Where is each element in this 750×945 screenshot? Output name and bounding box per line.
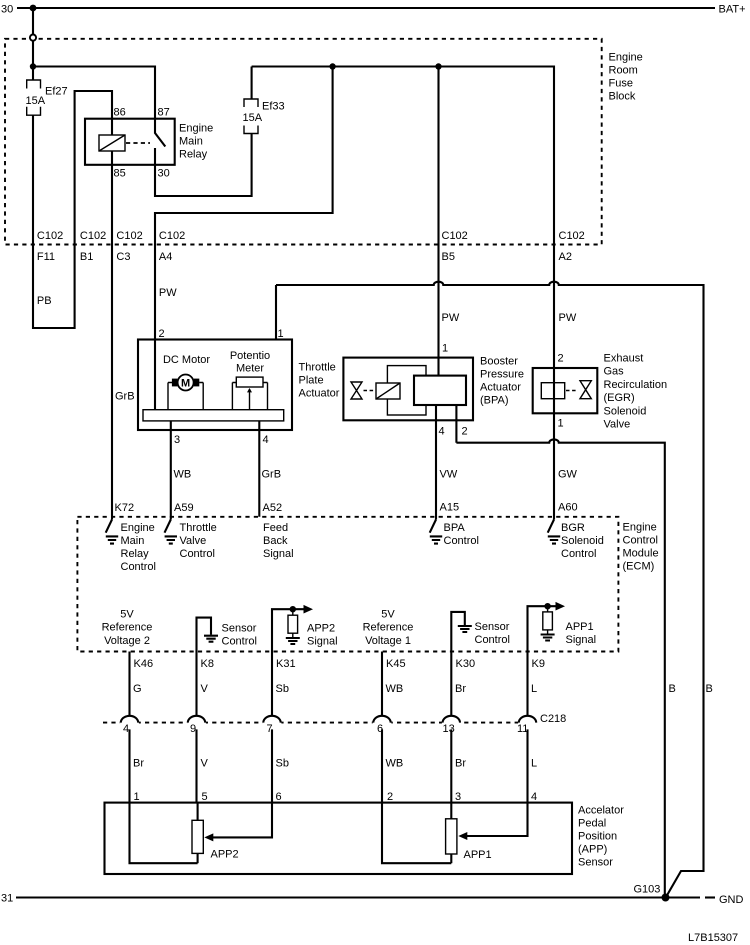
svg-text:Valve: Valve bbox=[604, 419, 631, 431]
svg-text:(EGR): (EGR) bbox=[604, 392, 635, 404]
svg-text:Sensor: Sensor bbox=[578, 857, 613, 869]
EGR pin 2 stub bbox=[553, 368, 555, 399]
svg-text:Throttle: Throttle bbox=[180, 522, 217, 534]
svg-text:PW: PW bbox=[559, 312, 577, 324]
wire junction to fuse Ef27 bbox=[32, 67, 34, 81]
svg-text:5V: 5V bbox=[120, 608, 134, 620]
dc motor symbol bbox=[168, 383, 203, 410]
wire fuse Ef33 to bus bbox=[251, 67, 253, 100]
svg-text:G103: G103 bbox=[634, 884, 661, 896]
svg-text:A52: A52 bbox=[263, 502, 283, 514]
svg-text:Sensor: Sensor bbox=[222, 623, 257, 635]
relay link dashed bbox=[126, 142, 150, 144]
svg-text:Pedal: Pedal bbox=[578, 818, 606, 830]
svg-text:DC Motor: DC Motor bbox=[163, 354, 210, 366]
svg-text:2: 2 bbox=[462, 426, 468, 438]
svg-text:B1: B1 bbox=[80, 251, 93, 263]
svg-text:BAT+: BAT+ bbox=[719, 4, 746, 16]
relay box Engine Main Relay bbox=[85, 119, 175, 165]
svg-text:K46: K46 bbox=[134, 658, 154, 670]
svg-text:Engine: Engine bbox=[609, 52, 643, 64]
svg-text:C102: C102 bbox=[159, 230, 185, 242]
svg-text:Meter: Meter bbox=[236, 363, 264, 375]
wire K30 to APP pin 3 bbox=[450, 652, 452, 803]
BPA plunger box bbox=[414, 376, 466, 405]
svg-text:C102: C102 bbox=[116, 230, 142, 242]
EGR valve symbol bbox=[580, 381, 591, 399]
wire K9 to APP pin 4 bbox=[526, 652, 528, 803]
svg-text:3: 3 bbox=[174, 434, 180, 446]
svg-text:PW: PW bbox=[159, 287, 177, 299]
throttle pin 4 wire to ECM A52 bbox=[258, 421, 260, 517]
svg-text:Relay: Relay bbox=[179, 149, 208, 161]
throttle plate actuator box bbox=[138, 340, 292, 431]
svg-text:Actuator: Actuator bbox=[299, 388, 340, 400]
svg-text:85: 85 bbox=[114, 168, 126, 180]
svg-text:Control: Control bbox=[475, 634, 510, 646]
svg-text:A4: A4 bbox=[159, 251, 172, 263]
APP2 potentiometer bbox=[192, 820, 203, 853]
svg-text:11: 11 bbox=[517, 723, 528, 735]
label Exhaust Gas Recirculation (EGR) Solenoid Valve bbox=[604, 353, 668, 431]
svg-text:Control: Control bbox=[180, 548, 215, 560]
connector C218 pass-through arcs bbox=[121, 716, 536, 723]
ECM APP2 signal K31 bbox=[272, 609, 304, 651]
svg-text:GrB: GrB bbox=[115, 391, 135, 403]
potentiometer symbol bbox=[236, 377, 263, 387]
svg-text:Ef27: Ef27 bbox=[45, 86, 68, 98]
svg-text:13: 13 bbox=[443, 723, 455, 735]
ECM sensor control K8 bbox=[197, 618, 212, 652]
svg-text:4: 4 bbox=[263, 434, 269, 446]
svg-text:WB: WB bbox=[386, 683, 404, 695]
svg-text:C218: C218 bbox=[540, 713, 566, 725]
svg-text:Sensor: Sensor bbox=[475, 621, 510, 633]
wire K31 to APP pin 6 bbox=[271, 652, 273, 803]
svg-text:86: 86 bbox=[114, 107, 126, 119]
wire APP pin 1 to APP2 low end bbox=[130, 803, 198, 864]
throttle pin 3 wire to ECM A59 bbox=[170, 421, 172, 520]
BPA pin 1 stub bbox=[437, 358, 439, 376]
wire APP pin 2 to APP1 low end bbox=[382, 803, 451, 864]
svg-text:Module: Module bbox=[623, 548, 659, 560]
wire K46 to APP pin 1 bbox=[128, 652, 130, 803]
EGR link dashed bbox=[566, 390, 578, 392]
svg-text:Valve: Valve bbox=[180, 535, 207, 547]
svg-text:Signal: Signal bbox=[566, 634, 597, 646]
svg-text:2: 2 bbox=[558, 353, 564, 365]
svg-text:3: 3 bbox=[455, 791, 461, 803]
BPA box Booster Pressure Actuator bbox=[343, 358, 473, 421]
junction node fuse feed bbox=[30, 63, 36, 69]
svg-text:Reference: Reference bbox=[102, 622, 153, 634]
svg-text:1: 1 bbox=[442, 343, 448, 355]
svg-text:VW: VW bbox=[440, 469, 458, 481]
svg-text:C3: C3 bbox=[116, 251, 130, 263]
svg-text:Voltage 1: Voltage 1 bbox=[365, 635, 411, 647]
svg-text:Relay: Relay bbox=[121, 548, 150, 560]
svg-text:Engine: Engine bbox=[623, 522, 657, 534]
svg-text:Voltage 2: Voltage 2 bbox=[104, 635, 150, 647]
svg-text:15A: 15A bbox=[26, 95, 46, 107]
svg-text:K9: K9 bbox=[532, 658, 545, 670]
svg-text:2: 2 bbox=[387, 791, 393, 803]
svg-text:4: 4 bbox=[439, 426, 445, 438]
svg-text:APP1: APP1 bbox=[566, 621, 594, 633]
svg-text:Control: Control bbox=[561, 548, 596, 560]
svg-text:GW: GW bbox=[558, 469, 578, 481]
svg-text:Booster: Booster bbox=[480, 356, 518, 368]
svg-text:Control: Control bbox=[623, 535, 658, 547]
wire circle to junction bbox=[32, 41, 34, 67]
svg-text:Gas: Gas bbox=[604, 366, 625, 378]
svg-text:K31: K31 bbox=[276, 658, 296, 670]
svg-text:87: 87 bbox=[158, 107, 170, 119]
svg-text:Main: Main bbox=[121, 535, 145, 547]
svg-text:Plate: Plate bbox=[299, 375, 324, 387]
svg-text:G: G bbox=[133, 683, 142, 695]
wire APP pin 6 to APP2 wiper bbox=[213, 803, 272, 838]
svg-text:K45: K45 bbox=[386, 658, 406, 670]
wire APP pin 5 to APP2 top bbox=[197, 803, 199, 821]
EGR box bbox=[533, 368, 598, 413]
svg-text:C102: C102 bbox=[80, 230, 106, 242]
svg-text:Control: Control bbox=[121, 561, 156, 573]
svg-text:4: 4 bbox=[123, 723, 129, 735]
wire battery rail top bbox=[17, 7, 715, 9]
svg-text:6: 6 bbox=[377, 723, 383, 735]
svg-text:Recirculation: Recirculation bbox=[604, 379, 668, 391]
svg-text:C102: C102 bbox=[442, 230, 468, 242]
svg-text:APP2: APP2 bbox=[307, 623, 335, 635]
svg-text:Sb: Sb bbox=[276, 683, 289, 695]
BPA loop bbox=[387, 366, 426, 415]
label Booster Pressure Actuator (BPA) bbox=[480, 356, 524, 407]
label Throttle Plate Actuator bbox=[299, 362, 340, 400]
svg-text:M: M bbox=[181, 378, 190, 390]
APP1 potentiometer bbox=[446, 819, 457, 854]
svg-text:L: L bbox=[531, 758, 537, 770]
svg-text:Signal: Signal bbox=[263, 548, 294, 560]
svg-text:PB: PB bbox=[37, 295, 52, 307]
svg-text:(BPA): (BPA) bbox=[480, 395, 509, 407]
svg-text:6: 6 bbox=[276, 791, 282, 803]
svg-text:Accelator: Accelator bbox=[578, 805, 624, 817]
wire bus to relay pin 87 bbox=[33, 67, 155, 134]
BPA pin 4 wire to ECM A15 bbox=[435, 405, 437, 520]
svg-text:Reference: Reference bbox=[363, 622, 414, 634]
svg-text:Control: Control bbox=[222, 636, 257, 648]
junction bus B5 drop bbox=[435, 63, 441, 69]
svg-text:Feed: Feed bbox=[263, 522, 288, 534]
svg-text:5V: 5V bbox=[381, 608, 395, 620]
fuse Ef27 bbox=[27, 80, 41, 115]
svg-text:L: L bbox=[531, 683, 537, 695]
wire K45 to APP pin 2 bbox=[381, 652, 383, 803]
svg-text:WB: WB bbox=[174, 469, 192, 481]
BPA solenoid coil bbox=[376, 383, 400, 399]
svg-text:GND: GND bbox=[719, 894, 744, 906]
svg-text:A15: A15 bbox=[440, 502, 460, 514]
wire main PW bus bbox=[252, 67, 554, 369]
svg-text:Br: Br bbox=[455, 683, 466, 695]
wire ground link top horizontal with hops bbox=[276, 282, 704, 897]
svg-text:Br: Br bbox=[455, 758, 466, 770]
svg-text:B: B bbox=[669, 683, 676, 695]
wire ground rail bottom bbox=[16, 896, 700, 898]
BPA valve symbol bbox=[351, 382, 362, 399]
svg-text:Signal: Signal bbox=[307, 636, 338, 648]
svg-text:APP1: APP1 bbox=[464, 849, 492, 861]
relay pin 30 wire to fuse Ef33 bbox=[155, 134, 252, 197]
svg-text:V: V bbox=[201, 683, 209, 695]
pass-through connector circle at fuse block border bbox=[30, 35, 36, 41]
svg-text:A60: A60 bbox=[558, 502, 578, 514]
ECM sensor control K30 bbox=[451, 612, 465, 652]
svg-text:Back: Back bbox=[263, 535, 288, 547]
svg-text:B: B bbox=[706, 683, 713, 695]
label Engine Room Fuse Block bbox=[609, 52, 643, 103]
svg-text:Engine: Engine bbox=[121, 522, 155, 534]
svg-text:K8: K8 bbox=[201, 658, 214, 670]
svg-text:15A: 15A bbox=[243, 112, 263, 124]
junction on battery rail bbox=[30, 5, 37, 12]
svg-text:L7B15307: L7B15307 bbox=[688, 932, 738, 944]
relay coil bbox=[99, 135, 125, 151]
svg-text:1: 1 bbox=[134, 791, 140, 803]
svg-text:30: 30 bbox=[158, 168, 170, 180]
throttle pin 1 wire to ground link bbox=[275, 285, 277, 340]
svg-text:F11: F11 bbox=[37, 251, 55, 263]
label Engine Control Module (ECM) bbox=[623, 522, 659, 573]
svg-text:Actuator: Actuator bbox=[480, 382, 521, 394]
svg-text:B5: B5 bbox=[442, 251, 455, 263]
svg-text:(ECM): (ECM) bbox=[623, 561, 655, 573]
svg-text:Fuse: Fuse bbox=[609, 78, 633, 90]
wire bus drop to C102 A4 and throttle pin 2 bbox=[155, 67, 333, 411]
svg-text:APP2: APP2 bbox=[211, 849, 239, 861]
svg-text:BGR: BGR bbox=[561, 522, 585, 534]
EGR pin 1 wire to ECM A60 bbox=[553, 399, 555, 520]
svg-text:V: V bbox=[201, 758, 209, 770]
svg-text:Solenoid: Solenoid bbox=[561, 535, 604, 547]
svg-text:Exhaust: Exhaust bbox=[604, 353, 644, 365]
svg-text:K30: K30 bbox=[456, 658, 476, 670]
svg-text:Ef33: Ef33 bbox=[262, 101, 285, 113]
svg-text:Throttle: Throttle bbox=[299, 362, 336, 374]
svg-text:Br: Br bbox=[133, 758, 144, 770]
svg-text:(APP): (APP) bbox=[578, 844, 607, 856]
label Accelator Pedal Position (APP) Sensor bbox=[578, 805, 624, 869]
svg-text:1: 1 bbox=[558, 418, 564, 430]
svg-text:C102: C102 bbox=[37, 230, 63, 242]
svg-text:BPA: BPA bbox=[444, 522, 466, 534]
relay switch blade bbox=[155, 133, 165, 147]
label Engine Main Relay bbox=[179, 123, 213, 161]
svg-text:GrB: GrB bbox=[262, 469, 282, 481]
potentiometer wiper arrow bbox=[249, 389, 251, 410]
svg-text:Engine: Engine bbox=[179, 123, 213, 135]
svg-text:Solenoid: Solenoid bbox=[604, 405, 647, 417]
svg-text:Pressure: Pressure bbox=[480, 369, 524, 381]
svg-text:2: 2 bbox=[159, 328, 165, 340]
svg-text:4: 4 bbox=[531, 791, 537, 803]
svg-text:WB: WB bbox=[386, 758, 404, 770]
ECM dashed border bbox=[77, 517, 618, 652]
ECM 5V Reference Voltage 1 bbox=[363, 608, 414, 647]
svg-text:31: 31 bbox=[1, 893, 13, 905]
svg-text:Main: Main bbox=[179, 136, 203, 148]
BPA pin 2 wire to ground bbox=[456, 405, 664, 898]
svg-text:K72: K72 bbox=[115, 502, 135, 514]
APP sensor box bbox=[105, 803, 573, 874]
svg-text:9: 9 bbox=[190, 723, 196, 735]
wire APP pin 3 to APP1 top bbox=[450, 803, 452, 819]
wire fuse Ef27 to C102 F11 and PB loop to C102 B1 bbox=[33, 91, 112, 328]
svg-text:Control: Control bbox=[444, 535, 479, 547]
svg-text:A2: A2 bbox=[559, 251, 572, 263]
svg-text:Sb: Sb bbox=[276, 758, 289, 770]
svg-text:7: 7 bbox=[267, 723, 273, 735]
EGR solenoid coil bbox=[541, 383, 564, 399]
throttle actuator base bar bbox=[143, 410, 284, 421]
svg-text:Room: Room bbox=[609, 65, 638, 77]
svg-text:1: 1 bbox=[278, 328, 284, 340]
svg-text:Block: Block bbox=[609, 91, 636, 103]
ECM APP1 signal K9 bbox=[528, 606, 557, 651]
svg-text:C102: C102 bbox=[559, 230, 585, 242]
svg-text:A59: A59 bbox=[174, 502, 194, 514]
junction bus A4 drop bbox=[329, 63, 335, 69]
svg-text:5: 5 bbox=[202, 791, 208, 803]
ECM pin A15 bbox=[430, 520, 436, 533]
wire K8 to APP pin 5 bbox=[195, 652, 197, 803]
svg-text:PW: PW bbox=[442, 312, 460, 324]
connector C218 dashed line bbox=[103, 722, 537, 724]
relay pin 85 wire to ECM K72 bbox=[111, 151, 113, 520]
ECM pin A60 bbox=[548, 520, 554, 533]
fuse Ef33 bbox=[244, 99, 258, 134]
fuse block dashed border bbox=[5, 39, 602, 245]
svg-text:Potentio: Potentio bbox=[230, 350, 270, 362]
svg-text:Position: Position bbox=[578, 831, 617, 843]
svg-text:30: 30 bbox=[1, 4, 13, 16]
wire from battery rail down to fuse block bbox=[32, 8, 34, 34]
wire bus drop to C102 B5 and BPA pin 1 bbox=[437, 67, 439, 358]
wire APP pin 4 to APP1 wiper bbox=[467, 803, 528, 836]
ECM 5V Reference Voltage 2 bbox=[102, 608, 153, 647]
